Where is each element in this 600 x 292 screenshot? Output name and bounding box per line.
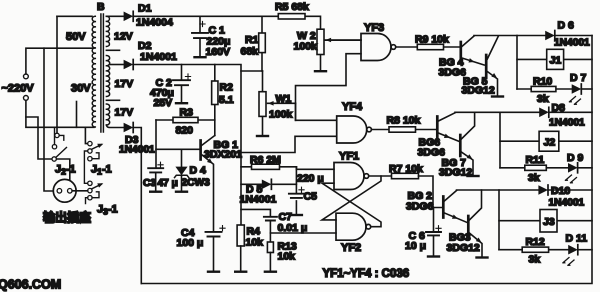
resistor R5 (278, 14, 305, 19)
ground C3 (150, 191, 161, 193)
capacitor C7 (241, 209, 270, 242)
transformer B core (101, 14, 104, 132)
relay coil J2 (500, 140, 592, 142)
potentiometer W2 (320, 55, 322, 70)
svg-text:R7 10k: R7 10k (389, 163, 423, 175)
svg-text:3DX201: 3DX201 (204, 149, 242, 161)
transistor BG2 3DG6 (442, 197, 445, 218)
svg-text:输出插座: 输出插座 (43, 210, 91, 225)
transformer secondary tap bar 1 (106, 49, 119, 51)
wire R3 left to BG1 base / C3 (155, 120, 157, 168)
resistor R1 (261, 16, 263, 71)
wire latch cross A (322, 176, 381, 220)
ground W1 (257, 135, 268, 137)
diode D1 (124, 11, 134, 21)
svg-text:R11: R11 (526, 154, 545, 166)
transistor BG5 3DG12 (485, 55, 488, 76)
wire primary top lead (57, 15, 92, 17)
wire latch cross B (322, 183, 381, 227)
wire rail2 D2 cathode to vertical feed (133, 65, 241, 226)
svg-text:R1: R1 (245, 34, 259, 46)
svg-text:3DG12: 3DG12 (447, 242, 480, 254)
svg-text:47 μ: 47 μ (158, 178, 178, 189)
svg-text:R2: R2 (220, 82, 234, 94)
wire socket right pin to J3-1 (72, 190, 88, 192)
svg-text:10k: 10k (246, 237, 264, 249)
resistor R9 (396, 46, 459, 48)
wire W1 wiper to YF4 input1 (296, 103, 337, 120)
svg-text:3DG6: 3DG6 (406, 201, 434, 213)
svg-text:1N4004: 1N4004 (136, 17, 173, 29)
svg-text:100 μ: 100 μ (177, 237, 204, 249)
potentiometer W1 (262, 71, 264, 135)
wire secondary top to D1 (106, 15, 123, 17)
nand gate YF4 (337, 116, 372, 143)
svg-text:R10: R10 (533, 76, 552, 88)
relay contact J1-1 (88, 141, 92, 145)
svg-text:J2-1: J2-1 (55, 164, 76, 177)
resistor R6 (241, 166, 296, 168)
svg-text:YF4: YF4 (342, 101, 363, 113)
wire R1 bottom to rail vertical (241, 70, 263, 72)
svg-text:160V: 160V (206, 46, 231, 58)
svg-text:YF3: YF3 (364, 22, 384, 34)
svg-text:30V: 30V (71, 83, 91, 95)
capacitor C6 (433, 208, 435, 256)
svg-text:10 μ: 10 μ (405, 240, 426, 252)
wire channel1 branch down (516, 36, 518, 90)
transformer secondary winding 12V (106, 16, 109, 46)
ground C6 (428, 256, 439, 258)
wire channel2 branch down (499, 112, 501, 168)
zener diode D4 2CW3 (181, 149, 183, 190)
svg-text:1N4001: 1N4001 (554, 38, 590, 49)
capacitor C1 (199, 16, 201, 55)
svg-text:1N4001: 1N4001 (240, 194, 277, 206)
wire YF3 input2 to W1 wiper node (296, 54, 362, 121)
AC input terminal upper (24, 74, 29, 79)
wire primary top tap down to J2-1 hook (56, 16, 58, 133)
wire secondary bottom to D3 (106, 125, 123, 128)
svg-text:J1-1: J1-1 (91, 164, 112, 177)
svg-text:Q606.COM: Q606.COM (0, 278, 61, 292)
nand gate YF2 (336, 213, 371, 240)
capacitor C4 (206, 232, 222, 237)
ground R13 (265, 271, 276, 273)
svg-text:J3-1: J3-1 (97, 204, 118, 217)
ground C1 (195, 56, 206, 58)
svg-text:C5: C5 (304, 191, 318, 203)
svg-text:D 11: D 11 (566, 233, 588, 245)
ground C4 (208, 271, 219, 273)
wire jog to J2-1 lower contact (26, 117, 52, 159)
wire right rail and bottom rail (141, 36, 592, 284)
svg-text:YF1: YF1 (339, 151, 359, 163)
capacitor C3 (148, 168, 163, 172)
svg-text:J2: J2 (544, 137, 556, 149)
svg-text:12V: 12V (114, 31, 133, 43)
svg-text:3k: 3k (537, 93, 549, 105)
transformer secondary winding 17V lower (106, 104, 109, 125)
resistor R11 (500, 167, 568, 169)
svg-text:R6 2M: R6 2M (250, 154, 281, 166)
svg-text:50V: 50V (66, 31, 86, 43)
svg-text:10k: 10k (278, 251, 296, 263)
ground W2 (315, 70, 326, 72)
nand gate YF1 (334, 163, 369, 190)
svg-text:J1: J1 (550, 55, 562, 67)
diode D10 (538, 185, 548, 195)
diode D3 (124, 123, 134, 133)
transformer primary winding (92, 16, 95, 127)
ground D4 (176, 191, 187, 193)
transistor BG7 3DG12 (459, 135, 462, 156)
transistor BG1 3DX201 (199, 141, 202, 160)
svg-text:R8 10k: R8 10k (387, 115, 421, 127)
wire YF3 input1 from W2 wiper (325, 39, 361, 41)
svg-text:R9 10k: R9 10k (415, 34, 449, 46)
svg-text:D10: D10 (551, 185, 570, 197)
svg-text:R3: R3 (180, 107, 194, 119)
wire YF1 output to R7 (369, 175, 391, 177)
resistor R13 (267, 242, 273, 253)
svg-text:C3: C3 (143, 178, 156, 189)
W2 wiper arrow (326, 38, 332, 43)
wire 17V tap to D2 (110, 64, 123, 66)
svg-text:D8: D8 (552, 102, 566, 114)
LED D11 (568, 245, 578, 255)
wire channel3 collector rail (457, 189, 539, 191)
wire to socket left pin (44, 48, 57, 191)
ground BG3 emitter (477, 257, 488, 259)
AC input terminal lower (24, 96, 29, 101)
output socket (53, 179, 76, 202)
capacitor C2 (181, 65, 183, 102)
svg-text:1N4001: 1N4001 (119, 144, 155, 155)
wire D3 cathode down left rail (133, 128, 141, 284)
svg-text:3k: 3k (529, 254, 541, 266)
svg-text:YF1~YF4 : C036: YF1~YF4 : C036 (323, 268, 410, 280)
ground BG5 emitter (492, 96, 503, 98)
svg-text:D 6: D 6 (558, 20, 575, 32)
svg-text:1N4001: 1N4001 (140, 51, 177, 63)
wire channel3 branch down (498, 190, 500, 250)
svg-text:820: 820 (176, 125, 194, 137)
wire rail to YF4 input2 (241, 136, 337, 152)
svg-text:B: B (97, 1, 105, 13)
svg-text:D 4: D 4 (190, 165, 207, 177)
svg-text:~220V: ~220V (2, 83, 35, 95)
svg-text:W1: W1 (276, 93, 292, 105)
svg-text:1N4001: 1N4001 (549, 118, 585, 129)
relay contact J2-1 (55, 133, 59, 137)
wire channel2 collector rail (455, 111, 539, 113)
resistor R10 (517, 88, 572, 90)
transistor BG6 3DG6 (436, 117, 439, 138)
ground R4 (235, 271, 246, 273)
ground C2 (176, 102, 187, 104)
wire top rail D1 to R5 to W2 (133, 16, 320, 29)
wire 220V upper to primary tap (26, 48, 94, 74)
svg-text:2CW3: 2CW3 (182, 178, 211, 189)
svg-text:J3: J3 (543, 216, 555, 228)
diode D8 (539, 107, 549, 117)
transistor BG3 3DG12 (467, 216, 470, 237)
transformer secondary tap bar 2 (106, 99, 119, 101)
svg-text:D 7: D 7 (570, 72, 587, 84)
ground C5 (291, 214, 302, 216)
svg-text:3k: 3k (528, 172, 540, 184)
transformer secondary winding 17V upper (106, 56, 109, 97)
resistor R7 (392, 173, 419, 178)
resistor R12 (499, 249, 568, 251)
diode D6 (545, 31, 555, 41)
wire 30V tap down (76, 102, 78, 128)
resistor R2 (214, 65, 216, 136)
resistor R3 (156, 119, 215, 121)
ground BG7 emitter (468, 175, 479, 177)
svg-text:3DG12: 3DG12 (462, 85, 495, 97)
nand gate YF3 (361, 34, 396, 61)
svg-text:YF2: YF2 (341, 242, 361, 254)
svg-text:R5 68k: R5 68k (275, 1, 309, 13)
svg-text:R12: R12 (526, 236, 545, 248)
diode D5 (241, 183, 296, 185)
wire C7/R13 node to YF2 input2 (270, 232, 336, 234)
wire R7 to BG2 base (419, 176, 443, 208)
svg-text:100k: 100k (294, 41, 318, 53)
transistor BG4 3DG6 (459, 42, 462, 63)
svg-text:D1: D1 (138, 3, 152, 15)
resistor R4 (237, 225, 244, 246)
svg-text:68k: 68k (241, 46, 259, 58)
resistor R8 (371, 129, 436, 131)
svg-text:100k: 100k (269, 109, 293, 121)
svg-text:1N4001: 1N4001 (549, 198, 585, 209)
wire C5 node to YF1 input1 (296, 167, 334, 170)
relay coil J1 (517, 58, 592, 60)
relay coil J3 (499, 220, 592, 222)
svg-text:5.1: 5.1 (219, 94, 234, 106)
svg-text:3DG6: 3DG6 (439, 67, 467, 79)
svg-text:D 9: D 9 (567, 152, 584, 164)
wire channel1 collector rail (474, 35, 545, 37)
LED D7 (572, 84, 582, 94)
wire BG1 base line (156, 148, 199, 150)
svg-text:17V: 17V (115, 107, 134, 119)
svg-text:17V: 17V (115, 78, 134, 90)
relay contact J3-1 (88, 181, 92, 185)
capacitor C5 (295, 167, 297, 214)
wire 220V lower to primary bottom (26, 100, 94, 127)
wire to J1-1 top contact (85, 127, 87, 143)
W1 wiper arrow (268, 101, 274, 106)
svg-text:25V: 25V (154, 97, 173, 109)
diode D2 (124, 60, 134, 70)
LED D9 (568, 163, 578, 173)
